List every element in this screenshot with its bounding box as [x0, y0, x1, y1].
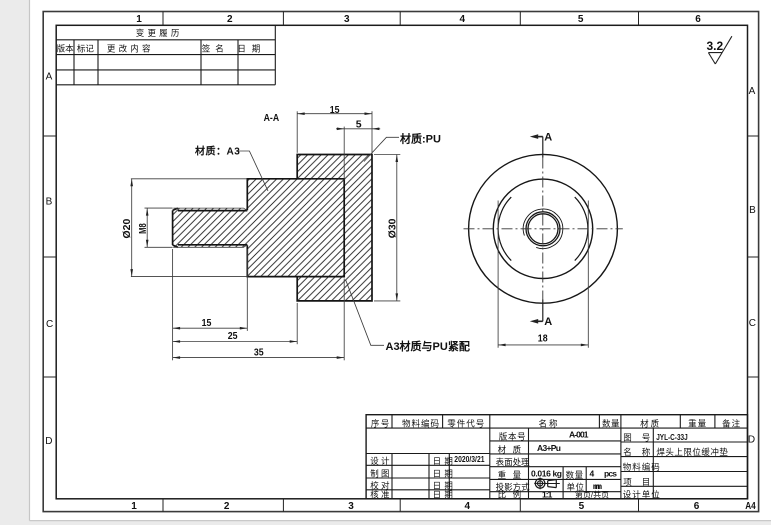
svg-text:5: 5 — [578, 14, 584, 25]
svg-text:日期: 日期 — [433, 456, 457, 466]
svg-text:零件代号: 零件代号 — [447, 418, 485, 428]
svg-text:标记: 标记 — [77, 44, 95, 54]
svg-text:C: C — [46, 319, 53, 330]
svg-text:Ø30: Ø30 — [387, 218, 398, 238]
svg-text:35: 35 — [254, 346, 264, 358]
svg-text:物料编码: 物料编码 — [623, 462, 661, 472]
dimension D30 right — [374, 155, 400, 301]
svg-text:3: 3 — [344, 14, 350, 25]
svg-text:版本: 版本 — [57, 44, 75, 54]
part outline PU disc — [297, 155, 372, 301]
title block — [366, 415, 747, 499]
dimension 35 bottom — [173, 279, 345, 361]
svg-text:数量: 数量 — [566, 470, 584, 480]
zone numbers top — [136, 14, 701, 25]
svg-text:18: 18 — [538, 333, 548, 345]
svg-text:物料编码: 物料编码 — [402, 418, 440, 428]
svg-text:表面处理: 表面处理 — [496, 457, 531, 467]
drawing number and part name values — [656, 432, 728, 457]
title block header texts — [371, 418, 741, 428]
hatching A3 steel core — [173, 179, 344, 277]
dimension 25 bottom — [173, 303, 298, 344]
svg-text:2: 2 — [224, 501, 230, 512]
svg-text:数量: 数量 — [602, 418, 620, 428]
zone letters right — [748, 86, 756, 446]
revision table — [56, 25, 275, 85]
svg-text:重量: 重量 — [688, 418, 707, 428]
svg-text:5: 5 — [579, 501, 585, 512]
svg-text:A-A: A-A — [264, 112, 280, 124]
revision table texts — [57, 28, 266, 54]
svg-text:材质: 材质 — [640, 418, 661, 428]
hatching PU bumper — [297, 155, 372, 301]
outer circle D30 — [469, 154, 618, 303]
title block value texts — [531, 430, 617, 500]
svg-text:B: B — [46, 197, 53, 208]
svg-text:A3+Pu: A3+Pu — [537, 443, 561, 453]
svg-text:2: 2 — [227, 14, 233, 25]
svg-text:更改内容: 更改内容 — [107, 44, 154, 54]
svg-text:焊头上限位缓冲垫: 焊头上限位缓冲垫 — [656, 447, 728, 457]
svg-text:1: 1 — [131, 501, 137, 512]
svg-text:2020/3/21: 2020/3/21 — [454, 454, 484, 464]
zone numbers bottom — [131, 501, 756, 512]
svg-text:比例: 比例 — [498, 489, 528, 499]
svg-text:JYL-C-33J: JYL-C-33J — [656, 432, 688, 442]
svg-text:D: D — [748, 435, 755, 446]
svg-text:A-001: A-001 — [569, 430, 589, 440]
svg-text:C: C — [749, 318, 756, 329]
svg-text:材质:PU: 材质:PU — [400, 131, 441, 145]
svg-text:日期: 日期 — [433, 469, 457, 479]
svg-text:设计单位: 设计单位 — [623, 489, 661, 499]
svg-text:1:1: 1:1 — [542, 490, 553, 500]
svg-text:4: 4 — [460, 14, 466, 25]
svg-text:A4: A4 — [745, 501, 756, 512]
svg-text:pcs: pcs — [604, 469, 617, 479]
dimension 15 top (PU width) — [297, 111, 372, 153]
dimension 5 top (PU lip) — [336, 127, 380, 181]
svg-text:名称: 名称 — [538, 418, 559, 428]
svg-text:0.016 kg: 0.016 kg — [531, 469, 562, 479]
svg-text:25: 25 — [228, 330, 238, 342]
leader label material PU — [364, 131, 441, 161]
left column texts — [370, 456, 456, 500]
svg-text:mm: mm — [593, 481, 603, 491]
D18 bore arcs — [498, 197, 588, 260]
svg-text:A3材质与PU紧配: A3材质与PU紧配 — [386, 339, 470, 353]
dimension 15 bottom (stud length) — [173, 249, 248, 360]
svg-text:制图: 制图 — [370, 469, 392, 479]
svg-text:备注: 备注 — [722, 418, 741, 428]
svg-text:M8: M8 — [138, 223, 149, 234]
svg-text:B: B — [749, 205, 756, 216]
svg-text:日期: 日期 — [433, 489, 457, 499]
dimension D20 left — [131, 179, 247, 277]
M8 thread circles — [523, 209, 563, 249]
svg-text:Ø20: Ø20 — [122, 218, 133, 238]
svg-text:4: 4 — [465, 501, 471, 512]
leader label material A3 — [195, 145, 268, 191]
right column texts — [623, 433, 661, 500]
svg-text:6: 6 — [695, 14, 701, 25]
svg-text:15: 15 — [330, 104, 340, 116]
svg-text:A: A — [749, 86, 756, 97]
svg-text:项目: 项目 — [623, 477, 660, 487]
part outline A3 core — [173, 179, 345, 277]
svg-text:A: A — [46, 71, 53, 82]
projection method symbol — [534, 478, 560, 490]
middle column texts — [496, 431, 610, 499]
svg-text:A: A — [544, 132, 552, 144]
svg-text:D: D — [45, 436, 52, 447]
leader label A3-PU press fit — [346, 280, 470, 354]
dimension M8 thread — [145, 208, 173, 247]
svg-text:重量: 重量 — [498, 470, 528, 480]
centerline horizontal — [464, 228, 623, 230]
svg-text:版本号: 版本号 — [499, 431, 527, 441]
svg-text:材质：A3: 材质：A3 — [195, 145, 240, 158]
svg-text:核准: 核准 — [370, 489, 392, 499]
svg-text:日期: 日期 — [237, 44, 266, 54]
zone letters left — [45, 71, 53, 447]
thread major diameter thin lines — [173, 208, 247, 247]
dimension 18 — [498, 201, 588, 348]
svg-text:5: 5 — [356, 119, 362, 131]
svg-text:6: 6 — [694, 501, 700, 512]
svg-text:序号: 序号 — [371, 418, 391, 428]
svg-text:图号: 图号 — [623, 433, 660, 443]
svg-text:3: 3 — [348, 501, 354, 512]
svg-text:签名: 签名 — [202, 44, 229, 54]
centerline vertical — [542, 158, 544, 300]
svg-text:3.2: 3.2 — [706, 39, 723, 53]
middle circle D20 core — [493, 179, 592, 278]
svg-text:15: 15 — [202, 317, 212, 329]
svg-text:4: 4 — [590, 469, 595, 479]
svg-text:1: 1 — [136, 14, 142, 25]
svg-text:变更履历: 变更履历 — [136, 28, 183, 38]
svg-text:A: A — [544, 316, 552, 328]
svg-text:设计: 设计 — [370, 456, 392, 466]
cutting plane mark bottom A — [530, 300, 552, 329]
svg-text:名称: 名称 — [623, 447, 660, 457]
svg-text:材质: 材质 — [498, 444, 528, 454]
surface roughness symbol 3.2 — [706, 36, 731, 64]
cutting plane mark top A — [530, 132, 552, 158]
